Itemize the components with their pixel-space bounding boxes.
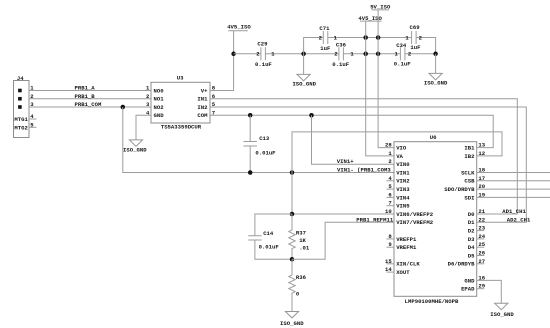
svg-text:VIO: VIO: [396, 145, 407, 152]
svg-text:EPAD: EPAD: [461, 286, 475, 293]
U6 left stub pin 15: [387, 263, 395, 265]
svg-text:C13: C13: [259, 135, 270, 142]
svg-text:PRB1_B: PRB1_B: [75, 93, 96, 100]
svg-text:ISO_GND: ISO_GND: [292, 81, 316, 88]
svg-text:0.1uF: 0.1uF: [394, 61, 411, 68]
capacitor C71: [319, 25, 338, 52]
svg-text:VIN0: VIN0: [396, 161, 410, 168]
svg-text:V+: V+: [201, 87, 208, 94]
junction right rail: [433, 52, 438, 57]
svg-text:0.01uF: 0.01uF: [255, 150, 276, 157]
junction lower rail at 4V5: [363, 52, 368, 57]
svg-text:VA: VA: [396, 153, 403, 160]
svg-text:D4: D4: [468, 244, 475, 251]
svg-text:IB1: IB1: [464, 145, 475, 152]
resistor R37: [289, 214, 310, 259]
wire 4V5 bypass rail y=53.8: [234, 53, 436, 55]
svg-text:ISO_GND: ISO_GND: [424, 80, 448, 87]
svg-text:1uF: 1uF: [320, 45, 331, 52]
svg-text:D1: D1: [468, 219, 475, 226]
junction R37 top: [290, 212, 295, 217]
svg-text:D3: D3: [468, 236, 475, 243]
svg-text:AD1_CH1: AD1_CH1: [502, 208, 526, 215]
svg-text:0.1uF: 0.1uF: [332, 61, 349, 68]
capacitor C34: [394, 42, 412, 68]
svg-text:5V_ISO: 5V_ISO: [370, 3, 391, 10]
svg-text:SCLK: SCLK: [461, 169, 475, 176]
junction upper rail at 5V: [376, 35, 381, 40]
wire IN1 to D0 (AD1_CH1): [210, 99, 517, 214]
svg-text:.01: .01: [299, 245, 310, 252]
svg-text:ISO_GND: ISO_GND: [123, 147, 147, 154]
junction V+ rail: [231, 52, 236, 57]
svg-text:4V5_ISO: 4V5_ISO: [227, 24, 251, 31]
capacitor C36: [332, 41, 354, 67]
wire 4V5_ISO to VA pin 1: [366, 21, 394, 156]
wire V+ to 4V5_ISO: [210, 31, 234, 91]
wire SCLK: [477, 172, 550, 174]
svg-text:GND: GND: [464, 277, 475, 284]
svg-text:XIN/CLK: XIN/CLK: [396, 261, 420, 268]
wire VIN1+ (COM to U6 VIN0 pin 2): [312, 115, 395, 164]
capacitor C13: [244, 115, 277, 172]
U6 left stub pin 8: [387, 238, 395, 240]
power symbol 4V5_ISO (left): [227, 24, 251, 31]
IC U3: [151, 75, 409, 305]
svg-text:D5: D5: [468, 252, 475, 259]
svg-text:J4: J4: [17, 75, 24, 82]
resistor R36: [289, 259, 307, 311]
svg-text:4V5_ISO: 4V5_ISO: [358, 15, 382, 22]
svg-text:VIN4: VIN4: [396, 194, 410, 201]
wire PRB1_COM (J4-3 to U3 NO2): [29, 106, 151, 108]
svg-text:CSB: CSB: [464, 178, 475, 185]
J4 pin 4 stub: [29, 118, 37, 120]
capacitor C29: [255, 40, 275, 68]
svg-text:VIN1+: VIN1+: [337, 158, 354, 165]
svg-text:VIN6/VREFP2: VIN6/VREFP2: [396, 211, 434, 218]
U6 left stub pin 5: [387, 188, 395, 190]
ground ISO_GND (top right): [424, 73, 448, 86]
U6 right stub pin 27: [477, 263, 485, 265]
junction upper rail at 4V5: [363, 35, 368, 40]
svg-text:C34: C34: [396, 42, 407, 49]
wire U3 GND to ground: [136, 115, 151, 140]
wire VIN6/VREFP2 pin 10: [292, 213, 394, 215]
wire PRB1_B (J4-2 to U3 NO1): [29, 98, 151, 100]
wire PRB1_A (J4-1 to U3 NO0): [29, 90, 151, 92]
svg-text:NO0: NO0: [154, 87, 165, 94]
svg-text:TS5A3359DCUR: TS5A3359DCUR: [161, 124, 202, 131]
wire IN2 to D1 (AD2_CH1): [210, 107, 526, 222]
connector J4: [14, 75, 30, 138]
svg-text:C14: C14: [263, 230, 274, 237]
power symbol 5V_ISO: [370, 3, 391, 10]
svg-text:C71: C71: [319, 25, 330, 32]
ground ISO_GND (below U3): [123, 140, 147, 154]
junction lower rail at 5V: [376, 52, 381, 57]
svg-text:VIN1: VIN1: [396, 169, 410, 176]
wire COM to IB1: [210, 115, 493, 147]
IC U6: [394, 134, 477, 305]
U6 right stub pin 25: [477, 246, 485, 248]
svg-text:VIN5: VIN5: [396, 203, 410, 210]
wire CSB: [477, 180, 550, 182]
svg-text:D2: D2: [468, 228, 475, 235]
U6 right stub pin 24: [477, 238, 485, 240]
junction below C71: [301, 52, 306, 57]
ground ISO_GND (below R36): [280, 312, 304, 328]
svg-text:22: 22: [478, 216, 485, 223]
junction R37 bottom: [290, 257, 295, 262]
svg-text:R37: R37: [296, 229, 306, 236]
wire ground drop right: [435, 54, 437, 74]
svg-text:13: 13: [478, 142, 485, 149]
svg-text:LMP90100MHE/NOPB: LMP90100MHE/NOPB: [405, 298, 459, 305]
svg-text:IN1: IN1: [197, 96, 208, 103]
svg-text:ISO_GND: ISO_GND: [490, 311, 514, 318]
svg-text:21: 21: [478, 208, 485, 215]
power symbol 4V5_ISO (right) + wire to U6 VA: [358, 15, 382, 22]
svg-text:NO2: NO2: [154, 104, 165, 111]
svg-text:PRB1_COM: PRB1_COM: [75, 101, 102, 108]
junction on PRB1_COM: [121, 105, 126, 110]
U6 left stub pin 9: [387, 246, 395, 248]
svg-text:GND: GND: [154, 112, 165, 119]
svg-text:0.1uF: 0.1uF: [255, 61, 272, 68]
J4 pin 5 stub: [29, 126, 37, 128]
svg-text:MTG1: MTG1: [14, 116, 28, 123]
wire 5V_ISO to VIO pin 28: [378, 10, 394, 148]
wire VIN1- rail (PRB1_COM to U6 VIN1 pin 3): [123, 107, 394, 173]
U6 left stub pin 7: [387, 205, 395, 207]
svg-text:VREFP1: VREFP1: [396, 236, 417, 243]
U6 right stub pin 29 EPAD: [477, 288, 485, 290]
svg-text:C36: C36: [336, 41, 347, 48]
svg-text:PRB1_REFM11: PRB1_REFM11: [356, 216, 394, 223]
svg-text:MTG2: MTG2: [14, 124, 28, 131]
svg-text:SDI: SDI: [464, 194, 474, 201]
wire ground drop below C71 junction: [303, 54, 305, 75]
junction COM at VIN1+ drop: [309, 113, 314, 118]
svg-text:C69: C69: [410, 24, 421, 31]
U6 left stub pin 14: [387, 271, 395, 273]
wire U6 GND to ground: [477, 280, 502, 303]
svg-text:IN2: IN2: [197, 104, 208, 111]
svg-text:NO1: NO1: [154, 96, 165, 103]
capacitor C69: [405, 24, 422, 51]
ground ISO_GND (below U6): [490, 303, 514, 318]
svg-text:PRB1_A: PRB1_A: [75, 85, 96, 92]
U6 right stub pin 23: [477, 230, 485, 232]
svg-text:XOUT: XOUT: [396, 269, 410, 276]
wire to upper rail y=37.5: [304, 38, 436, 54]
junction rail at C13: [248, 170, 253, 175]
svg-text:0.01uF: 0.01uF: [259, 244, 280, 251]
wire SDO/DRDYB: [477, 188, 550, 190]
svg-text:U3: U3: [177, 75, 184, 82]
svg-text:COM: COM: [197, 112, 208, 119]
svg-text:VIN3: VIN3: [396, 186, 410, 193]
U6 left stub pin 6: [387, 196, 395, 198]
U6 right stub pin 26: [477, 255, 485, 257]
svg-text:VIN7/VREFM2: VIN7/VREFM2: [396, 219, 434, 226]
svg-text:U6: U6: [430, 134, 437, 141]
junction COM at C13: [248, 113, 253, 118]
svg-text:SDO/DRDYB: SDO/DRDYB: [444, 186, 475, 193]
svg-text:ISO_GND: ISO_GND: [280, 320, 304, 327]
wire rail branch to IB2: [292, 132, 502, 214]
capacitor C14: [248, 214, 292, 259]
svg-text:10: 10: [385, 208, 392, 215]
wire PRB1_REFM1 (to U6 pin 11): [292, 222, 394, 259]
U6 left stub pin 4: [387, 180, 395, 182]
svg-text:28: 28: [385, 142, 392, 149]
wire SDI: [477, 196, 550, 198]
svg-text:1K: 1K: [299, 237, 306, 244]
svg-text:C29: C29: [257, 40, 268, 47]
svg-text:VREFM1: VREFM1: [396, 244, 417, 251]
svg-text:VIN2: VIN2: [396, 178, 410, 185]
svg-text:AD2_CH1: AD2_CH1: [507, 216, 531, 223]
svg-text:D6/DRDYB: D6/DRDYB: [448, 261, 475, 268]
svg-text:12: 12: [478, 150, 485, 157]
svg-text:VIN1- (PRB1_COM3: VIN1- (PRB1_COM3: [337, 167, 391, 174]
ground ISO_GND (top middle): [292, 74, 316, 87]
svg-text:1uF: 1uF: [410, 44, 421, 51]
svg-text:IB2: IB2: [464, 153, 475, 160]
junction rail at R37 vertical: [290, 170, 295, 175]
svg-text:R36: R36: [296, 274, 307, 281]
svg-text:D0: D0: [468, 211, 475, 218]
